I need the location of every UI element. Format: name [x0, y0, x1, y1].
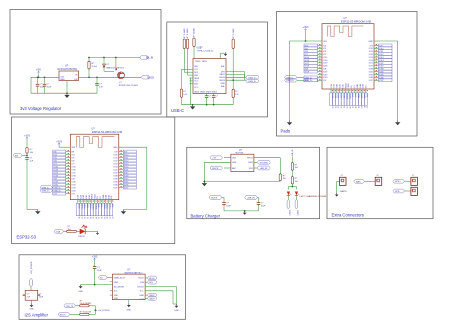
sheet box: USB-C	[167, 22, 268, 117]
svg-text:+5V: +5V	[36, 68, 41, 72]
resistor R7 5.1k right pulldown	[232, 89, 234, 97]
svg-text:GND: GND	[174, 310, 179, 312]
global label USB_D- pads	[285, 76, 297, 79]
svg-text:GND: GND	[232, 162, 237, 164]
sheet box: Extra Connectors	[327, 147, 433, 218]
svg-text:R?: R?	[183, 91, 185, 93]
svg-text:IO16: IO16	[323, 60, 327, 62]
svg-text:IO9: IO9	[115, 151, 118, 153]
wire left power rail	[290, 40, 323, 42]
wire u5 bat	[224, 167, 231, 169]
svg-text:EN: EN	[15, 155, 18, 157]
svg-text:+5V_FORCE: +5V_FORCE	[31, 261, 33, 274]
svg-text:2: 2	[412, 190, 413, 192]
ground amp right	[175, 304, 179, 308]
svg-text:32: 32	[83, 217, 85, 219]
svg-text:Pads: Pads	[281, 129, 291, 134]
svg-text:R? 5.1k00: R? 5.1k00	[184, 28, 186, 38]
module U3 ESP32-S3-WROOM-1	[322, 24, 374, 89]
global label BUCK amp	[58, 313, 69, 317]
resistor R3 5.1k CC2	[186, 39, 188, 49]
svg-text:BCLK: BCLK	[149, 278, 155, 280]
global label +BB_IN cap	[245, 196, 258, 200]
svg-text:USB?: USB?	[197, 48, 204, 50]
svg-text:I2S Amplifier: I2S Amplifier	[25, 313, 49, 318]
wire usb data rows	[226, 71, 244, 73]
ground led	[96, 231, 99, 235]
svg-text:IO41: IO41	[86, 195, 88, 199]
capacitor C2 10uF	[44, 77, 46, 84]
capacitor C8 10uF	[257, 196, 258, 198]
svg-text:Extra Connectors: Extra Connectors	[332, 213, 364, 218]
junction dots box2	[192, 104, 194, 106]
svg-text:IO2: IO2	[97, 196, 99, 199]
global label STAT1 vertical	[287, 200, 290, 209]
svg-text:CS6_TX: CS6_TX	[66, 306, 74, 308]
svg-text:DIN: DIN	[149, 282, 153, 284]
svg-text:1: 1	[340, 180, 341, 182]
wire bottom rail usb	[182, 104, 234, 106]
global label EN	[13, 153, 22, 157]
svg-text:42: 42	[111, 217, 113, 219]
antenna meander 2	[76, 137, 114, 148]
global label USB_D-	[40, 186, 52, 189]
svg-text:+BB_IN: +BB_IN	[292, 149, 294, 157]
capacitor C1 10uF	[37, 77, 39, 84]
svg-text:BUCK: BUCK	[60, 314, 66, 316]
svg-text:IO18: IO18	[323, 66, 327, 68]
wire main rail right	[79, 76, 141, 78]
jumper X1	[25, 290, 38, 300]
svg-text:GND: GND	[127, 310, 132, 312]
svg-text:30: 30	[78, 217, 80, 219]
svg-text:USB_D+: USB_D+	[286, 80, 295, 82]
svg-text:GND: GND	[357, 83, 359, 88]
svg-text:IO36: IO36	[369, 77, 373, 79]
wire en mid	[26, 153, 28, 157]
svg-text:IO11: IO11	[114, 157, 118, 159]
svg-text:ESP32: ESP32	[79, 236, 86, 238]
wire rowA 1	[75, 305, 79, 307]
shield ground	[220, 53, 222, 58]
svg-text:IO40: IO40	[83, 195, 85, 199]
svg-text:IO20: IO20	[323, 77, 327, 79]
global label USB_D+ pads	[285, 79, 297, 82]
resistor R14 50	[80, 313, 90, 315]
wire en gnd rail	[27, 209, 38, 211]
svg-text:36: 36	[348, 106, 350, 108]
wire amp gnd rail	[81, 284, 113, 286]
pins U4 left	[66, 151, 71, 153]
svg-text:VDD: VDD	[114, 295, 119, 297]
svg-text:IO13: IO13	[113, 163, 117, 165]
svg-text:VCC: VCC	[194, 87, 199, 89]
svg-text:GND: GND	[78, 291, 83, 293]
amplifier U6 MAX98357A	[113, 274, 146, 300]
wire top rail BB_IN	[89, 57, 140, 59]
svg-text:USB-C: USB-C	[171, 108, 184, 113]
wire en column top	[26, 139, 28, 147]
resistor R5 right	[232, 39, 234, 49]
svg-text:35: 35	[92, 217, 94, 219]
svg-text:30: 30	[331, 106, 333, 108]
LED D3 charging	[287, 192, 290, 196]
svg-text:10uF: 10uF	[47, 87, 52, 89]
global label CS6_TX	[64, 304, 76, 308]
capacitor C3 1uF	[96, 77, 98, 83]
svg-text:+3V3: +3V3	[24, 134, 30, 137]
sheet box: Pads	[277, 12, 418, 137]
svg-text:IO45: IO45	[113, 178, 117, 180]
svg-text:N.C.: N.C.	[114, 291, 119, 293]
svg-text:VBUS: VBUS	[219, 77, 225, 79]
wire bottom rail	[31, 92, 97, 94]
svg-text:1: 1	[376, 180, 377, 182]
global label SPK+	[393, 179, 405, 183]
svg-text:40: 40	[106, 217, 108, 219]
ground right esp	[121, 210, 126, 215]
svg-text:+BB_IN: +BB_IN	[260, 168, 268, 170]
svg-text:+5V_FORCE: +5V_FORCE	[98, 310, 111, 312]
wire stat oval	[254, 161, 257, 163]
sheet box: 3v3 Voltage Regulator	[10, 10, 161, 115]
global label STAT2 vertical	[295, 200, 298, 209]
svg-text:BB_IN: BB_IN	[146, 57, 153, 60]
svg-text:IO0: IO0	[366, 85, 368, 88]
ground usb	[190, 105, 195, 110]
ground left pads	[287, 121, 292, 126]
global label BUCK charger	[210, 166, 223, 170]
svg-text:IO5: IO5	[72, 157, 75, 159]
svg-text:SPK-: SPK-	[395, 191, 400, 193]
svg-text:C?: C?	[216, 96, 218, 98]
svg-text:IO44: IO44	[360, 84, 362, 88]
svg-text:37: 37	[351, 106, 353, 108]
wire rowB 2	[89, 313, 95, 315]
wire left drop	[30, 77, 32, 93]
svg-text:VBUS: VBUS	[219, 80, 225, 82]
svg-text:+5V: +5V	[212, 158, 216, 160]
svg-text:SPK+: SPK+	[395, 181, 401, 183]
svg-text:TYPE-C-31-M-12: TYPE-C-31-M-12	[197, 51, 215, 53]
svg-text:BUCK: BUCK	[212, 168, 219, 170]
svg-text:IO8: IO8	[323, 69, 326, 71]
capacitor C4	[206, 94, 208, 96]
svg-text:IO10: IO10	[113, 154, 117, 156]
svg-text:IO45: IO45	[369, 71, 373, 73]
sheet box: I2S Amplifier	[19, 255, 186, 319]
svg-text:IO9: IO9	[370, 45, 373, 47]
svg-text:R? 5.1k00: R? 5.1k00	[187, 28, 189, 38]
resistor R9 1k led	[67, 230, 77, 232]
global label SD amp	[98, 276, 107, 280]
svg-text:BCLK: BCLK	[138, 278, 144, 280]
svg-text:GNLP: GNLP	[149, 298, 155, 300]
svg-text:IO12: IO12	[113, 160, 117, 162]
ground	[64, 93, 69, 98]
svg-text:IO12: IO12	[369, 54, 373, 56]
svg-text:IO37: IO37	[369, 80, 373, 82]
svg-text:41: 41	[108, 217, 110, 219]
svg-text:GND: GND	[139, 295, 144, 297]
svg-text:IO17: IO17	[72, 172, 76, 174]
svg-text:IO35: IO35	[369, 74, 373, 76]
svg-text:IO7: IO7	[323, 54, 326, 56]
svg-text:SD_MODE: SD_MODE	[114, 286, 125, 288]
svg-text:1: 1	[412, 180, 413, 182]
svg-text:MAX98357AETE+T: MAX98357AETE+T	[125, 271, 144, 274]
svg-text:IO43: IO43	[108, 195, 110, 199]
svg-text:ESP32-S3-WROOM-1-N8: ESP32-S3-WROOM-1-N8	[341, 19, 372, 23]
ground amp left	[79, 285, 83, 289]
svg-text:35: 35	[345, 106, 347, 108]
svg-text:IO14: IO14	[113, 166, 117, 168]
svg-text:VBUS: VBUS	[195, 61, 201, 63]
wire u5 vdd	[224, 157, 231, 159]
svg-text:41: 41	[363, 106, 365, 108]
capacitor C9 10uF amp	[94, 260, 96, 267]
module U4 ESP32-S3-WROOM-1	[70, 134, 119, 199]
svg-text:BAT+: BAT+	[356, 180, 362, 183]
global label STAT	[257, 160, 270, 164]
svg-text:IO48: IO48	[113, 175, 117, 177]
resistor R8 10k EN	[26, 147, 28, 153]
svg-text:IO36: IO36	[113, 184, 117, 186]
wire vss oval	[254, 167, 257, 169]
wire right gnd net	[119, 146, 147, 148]
resistor R13 50	[80, 305, 90, 307]
svg-text:-BATM: -BATM	[340, 190, 347, 193]
svg-text:38: 38	[100, 217, 102, 219]
svg-text:DIN: DIN	[140, 282, 144, 284]
ground en	[35, 210, 40, 215]
global label oval vertical	[30, 278, 33, 286]
wire jumper bottom	[31, 300, 33, 303]
resistor R1 5.1k	[88, 58, 90, 62]
svg-text:IO42: IO42	[89, 195, 91, 199]
svg-text:PROG: PROG	[247, 158, 253, 160]
svg-text:IO8: IO8	[72, 178, 75, 180]
svg-text:VBUS: VBUS	[202, 61, 208, 63]
svg-text:IO41: IO41	[340, 84, 342, 88]
global label BAT+	[354, 179, 365, 183]
capacitor C7 10uF	[222, 196, 224, 198]
svg-text:VDD: VDD	[114, 298, 119, 300]
junction dots box1	[37, 76, 39, 78]
pins U4 right	[119, 151, 124, 153]
svg-text:IO15: IO15	[72, 166, 76, 168]
svg-text:SBU2: SBU2	[220, 74, 226, 76]
svg-text:R? 1k000: R? 1k000	[194, 27, 196, 37]
svg-text:5.1k: 5.1k	[183, 94, 187, 96]
svg-text:10uF: 10uF	[261, 206, 266, 208]
svg-text:IO40: IO40	[337, 84, 339, 88]
global label SPK-	[393, 189, 405, 193]
wire led 1	[64, 230, 67, 232]
wire gate	[104, 70, 114, 72]
wire j4	[364, 180, 375, 182]
charger U5 MCP73831	[231, 154, 254, 171]
capacitor C6 EN	[25, 157, 29, 159]
svg-text:IO44: IO44	[106, 195, 108, 199]
global label BB_IN	[140, 56, 149, 59]
svg-text:IO19: IO19	[323, 74, 327, 76]
wire j5a	[404, 180, 411, 182]
svg-text:IO39: IO39	[334, 84, 336, 88]
sheet box: ESP32-S3	[12, 117, 175, 244]
svg-text:USB_D+: USB_D+	[305, 80, 314, 82]
svg-text:IO37: IO37	[113, 187, 117, 189]
regulator U1 NCP1117	[59, 71, 79, 81]
wire led 3	[85, 230, 98, 232]
wire +5V stub	[38, 74, 40, 78]
connector J3	[340, 177, 347, 185]
svg-text:5.1k: 5.1k	[235, 94, 239, 96]
svg-text:IO1: IO1	[100, 196, 102, 199]
svg-text:MCP738: MCP738	[236, 153, 245, 155]
global label IO48 led	[54, 230, 64, 234]
ground right pads	[395, 121, 400, 126]
svg-text:LED? CHARGING POWER: LED? CHARGING POWER	[300, 195, 327, 198]
wire en label	[22, 154, 27, 156]
ground charger	[202, 181, 207, 186]
svg-text:EN: EN	[75, 79, 78, 81]
svg-text:IO38: IO38	[331, 84, 333, 88]
wire U1 GND pin	[66, 81, 68, 94]
wire amp right vertical	[176, 287, 178, 305]
svg-text:+3V3: +3V3	[56, 140, 62, 143]
svg-text:GND: GND	[60, 79, 65, 81]
wire right resistor column	[232, 49, 234, 90]
svg-text:IO21: IO21	[113, 169, 117, 171]
svg-text:IO20: IO20	[72, 184, 76, 186]
connector J5 pin2	[411, 187, 418, 195]
junction pads 3v3	[305, 40, 307, 42]
svg-text:ESP32-S3-WROOM-1-N8: ESP32-S3-WROOM-1-N8	[92, 130, 123, 134]
wire led column 2	[291, 170, 293, 176]
svg-text:IO1: IO1	[354, 85, 356, 88]
capacitor C5	[213, 94, 215, 96]
sheet box: Battery Charger	[187, 147, 320, 218]
svg-text:39: 39	[103, 217, 105, 219]
svg-text:STAT2: STAT2	[296, 210, 299, 216]
svg-text:IO42: IO42	[342, 84, 344, 88]
svg-text:C?: C?	[27, 294, 29, 296]
resistor R12 1k	[291, 177, 293, 185]
global label BCLK	[145, 277, 147, 279]
svg-text:+3V3: +3V3	[303, 26, 309, 29]
svg-text:GAIN_SLOT: GAIN_SLOT	[114, 277, 126, 280]
svg-text:10uF: 10uF	[97, 270, 102, 272]
svg-text:IO38: IO38	[78, 195, 80, 199]
LED D4 power	[295, 192, 298, 196]
transistor Q1 SI2301	[115, 58, 117, 71]
svg-text:USB_D-: USB_D-	[42, 188, 50, 190]
svg-text:IO7: IO7	[72, 163, 75, 165]
svg-text:USB_D+: USB_D+	[42, 191, 51, 193]
global label +5V charger	[210, 156, 223, 160]
svg-text:IO18: IO18	[72, 175, 76, 177]
svg-text:IO20: IO20	[72, 190, 76, 192]
svg-text:IO2: IO2	[351, 85, 353, 88]
svg-text:IO0: IO0	[111, 196, 113, 199]
svg-text:C?: C?	[209, 96, 211, 98]
wire rowAB join	[94, 306, 96, 315]
wire CC1 net	[183, 49, 185, 73]
wire jumper top	[30, 287, 32, 291]
ground j3	[335, 193, 339, 197]
global label USB_D-	[246, 79, 259, 83]
wire amp right 2	[145, 290, 173, 292]
wire prog net	[254, 157, 280, 159]
svg-text:IO17: IO17	[323, 63, 327, 65]
svg-text:40: 40	[360, 106, 362, 108]
wire left drop 1	[182, 68, 190, 70]
svg-text:LRCLK: LRCLK	[137, 286, 144, 288]
svg-text:SI2301CDS-T1-GE3: SI2301CDS-T1-GE3	[119, 85, 139, 87]
wire CC2 net	[187, 49, 189, 76]
svg-text:IO6: IO6	[72, 160, 75, 162]
ground caps	[243, 211, 247, 215]
connector J2 USB TYPE-C	[193, 59, 226, 94]
svg-text:NCP1117ST50T3G: NCP1117ST50T3G	[58, 69, 78, 71]
svg-text:GND: GND	[220, 83, 225, 85]
svg-text:GND: GND	[113, 147, 118, 149]
svg-text:36: 36	[94, 217, 96, 219]
wire main rail left	[31, 76, 57, 78]
pins U3 left	[318, 45, 323, 47]
svg-text:IO3: IO3	[72, 193, 75, 195]
diode D1 MBR120	[103, 58, 105, 64]
global label OUTP	[145, 297, 147, 299]
wire u5 gnd	[204, 161, 231, 163]
svg-text:GND: GND	[368, 41, 373, 43]
wire R6 bottom	[181, 97, 183, 104]
antenna meander	[328, 26, 364, 37]
global label OUTN	[145, 294, 147, 296]
svg-text:34: 34	[89, 217, 91, 219]
resistor R4 VBUS	[193, 38, 195, 47]
svg-text:GND: GND	[114, 282, 119, 284]
svg-text:IO11: IO11	[369, 51, 373, 53]
svg-text:IO47: IO47	[369, 66, 373, 68]
svg-text:IO43: IO43	[363, 84, 365, 88]
global label DIN	[145, 281, 147, 283]
svg-text:R?: R?	[235, 91, 237, 93]
svg-text:IO19: IO19	[72, 187, 76, 189]
wire right power rail	[374, 40, 398, 42]
svg-text:GND: GND	[103, 194, 105, 199]
svg-text:OUT: OUT	[140, 299, 145, 301]
svg-text:TXD0: TXD0	[348, 83, 350, 88]
wire 3v3 to module	[58, 145, 60, 147]
ground amp center	[128, 300, 130, 304]
wire led split	[291, 184, 293, 187]
connector J5 pin1	[411, 177, 418, 185]
svg-text:BUCK: BUCK	[147, 76, 154, 79]
svg-text:SBU1: SBU1	[194, 78, 200, 80]
resistor R2 5.1k CC1	[183, 39, 185, 49]
wire j5b	[404, 190, 411, 192]
wire rowB 1	[70, 313, 80, 315]
wire VBUS column	[193, 47, 195, 59]
svg-text:38: 38	[354, 106, 356, 108]
svg-text:IO35: IO35	[113, 181, 117, 183]
resistor R11 1k	[291, 163, 293, 171]
net label +5V_FORCE amp	[95, 309, 97, 311]
svg-text:34: 34	[342, 106, 344, 108]
svg-text:39: 39	[357, 106, 359, 108]
